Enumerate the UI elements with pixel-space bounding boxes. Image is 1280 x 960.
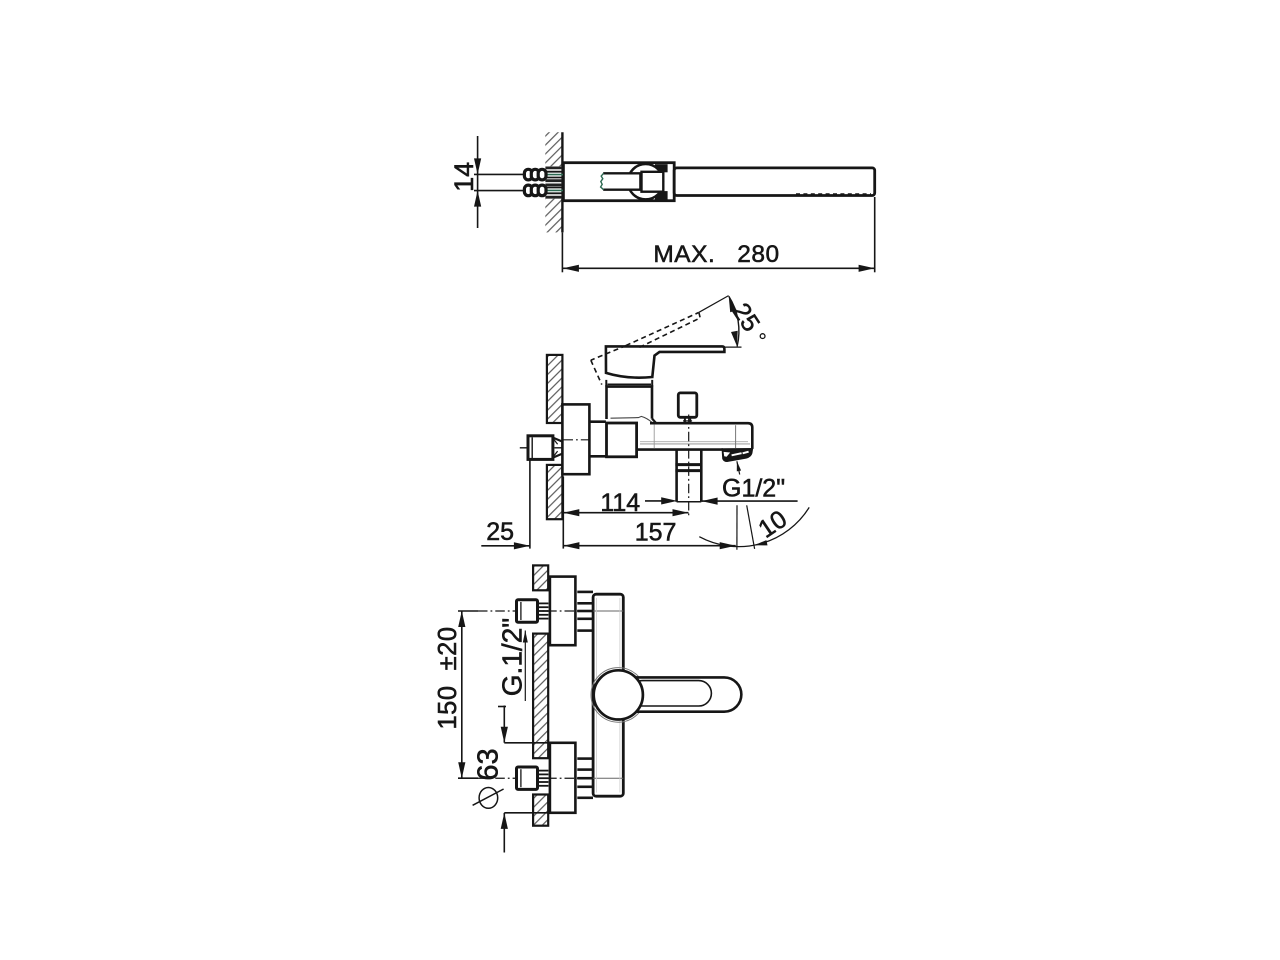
svg-text:14: 14 [449,162,479,192]
svg-text:63: 63 [473,748,505,780]
svg-text:150 ±20: 150 ±20 [434,626,462,729]
svg-text:MAX. 280: MAX. 280 [653,241,779,268]
svg-text:157: 157 [635,518,677,546]
svg-text:25: 25 [486,518,514,546]
svg-text:114: 114 [600,489,640,517]
svg-text:G.1/2": G.1/2" [497,618,528,696]
svg-text:G1/2": G1/2" [722,475,785,503]
